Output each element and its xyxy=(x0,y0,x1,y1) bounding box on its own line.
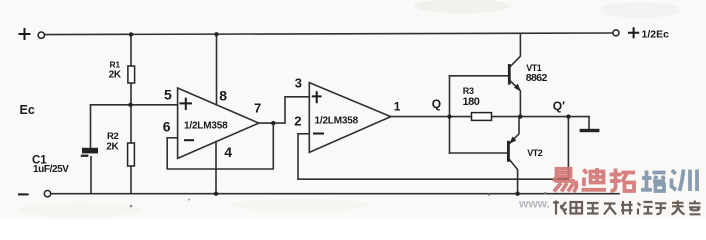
svg-text:1/2LM358: 1/2LM358 xyxy=(315,116,359,127)
svg-text:180: 180 xyxy=(463,96,480,108)
svg-text:5: 5 xyxy=(164,87,172,103)
svg-text:www.: www. xyxy=(518,197,550,211)
svg-text:8862: 8862 xyxy=(526,72,548,84)
svg-text:1/2Ec: 1/2Ec xyxy=(642,28,670,40)
svg-text:R1: R1 xyxy=(110,60,121,70)
svg-text:R3: R3 xyxy=(463,86,474,96)
svg-text:7: 7 xyxy=(254,101,261,116)
svg-text:1/2LM358: 1/2LM358 xyxy=(184,121,228,132)
svg-text:Q′: Q′ xyxy=(553,99,565,113)
svg-text:1: 1 xyxy=(394,100,401,114)
svg-text:2K: 2K xyxy=(109,70,122,81)
svg-text:VT2: VT2 xyxy=(527,148,543,158)
svg-text:8: 8 xyxy=(219,88,227,104)
svg-text:2: 2 xyxy=(294,114,301,129)
svg-text:1uF/25V: 1uF/25V xyxy=(33,164,69,175)
svg-text:Ec: Ec xyxy=(20,103,35,117)
svg-text:2K: 2K xyxy=(106,142,119,153)
svg-text:Q: Q xyxy=(432,97,441,111)
svg-text:6: 6 xyxy=(163,118,171,134)
svg-text:4: 4 xyxy=(224,144,232,160)
svg-text:3: 3 xyxy=(295,75,302,90)
